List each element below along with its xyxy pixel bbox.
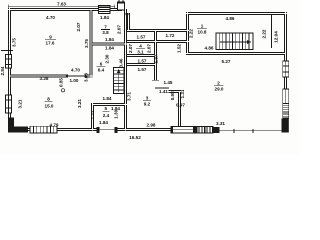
- svg-text:1.84: 1.84: [103, 96, 112, 101]
- svg-text:3: 3: [146, 96, 149, 101]
- svg-text:2.22: 2.22: [262, 29, 267, 38]
- svg-text:3.08: 3.08: [84, 73, 89, 82]
- svg-text:4.86: 4.86: [205, 45, 214, 50]
- svg-text:7: 7: [104, 24, 107, 29]
- svg-text:4: 4: [139, 44, 142, 49]
- svg-text:1.00: 1.00: [70, 78, 79, 83]
- svg-text:5.27: 5.27: [222, 59, 231, 64]
- svg-text:4.70: 4.70: [71, 67, 80, 72]
- svg-text:9.2: 9.2: [144, 101, 151, 106]
- svg-text:3.21: 3.21: [77, 99, 82, 108]
- svg-text:1.57: 1.57: [138, 67, 147, 72]
- svg-text:8: 8: [47, 97, 50, 102]
- svg-text:0.85: 0.85: [59, 78, 64, 87]
- svg-text:1.22: 1.22: [90, 110, 95, 119]
- svg-text:2.07: 2.07: [128, 44, 133, 53]
- svg-text:6: 6: [100, 62, 103, 67]
- svg-text:16.52: 16.52: [129, 135, 141, 140]
- svg-text:1.84: 1.84: [105, 46, 114, 51]
- svg-text:3.8: 3.8: [102, 30, 109, 35]
- svg-text:1.41: 1.41: [159, 89, 168, 94]
- svg-text:3.31: 3.31: [216, 121, 225, 126]
- svg-text:1.30: 1.30: [114, 109, 119, 118]
- svg-text:1.84: 1.84: [99, 120, 108, 125]
- svg-text:10.8: 10.8: [198, 29, 207, 34]
- svg-text:7.63: 7.63: [57, 1, 66, 6]
- svg-text:0.98: 0.98: [170, 91, 175, 100]
- svg-text:1.84: 1.84: [105, 37, 114, 42]
- svg-text:6.4: 6.4: [98, 67, 105, 72]
- svg-text:2.30: 2.30: [105, 54, 110, 63]
- svg-text:3.1: 3.1: [137, 49, 144, 54]
- svg-text:5: 5: [105, 106, 108, 111]
- svg-text:2: 2: [217, 81, 220, 86]
- svg-text:1.31: 1.31: [180, 89, 185, 98]
- svg-text:2.84: 2.84: [0, 66, 5, 75]
- svg-text:2.4: 2.4: [103, 113, 110, 118]
- svg-text:1.52: 1.52: [177, 44, 182, 53]
- svg-text:3.75: 3.75: [84, 39, 89, 48]
- svg-text:2.07: 2.07: [117, 25, 122, 34]
- svg-text:12.04: 12.04: [274, 31, 279, 43]
- svg-text:3.71: 3.71: [127, 92, 132, 101]
- svg-text:0.97: 0.97: [176, 103, 185, 108]
- svg-text:1.57: 1.57: [137, 34, 146, 39]
- svg-text:4.86: 4.86: [226, 16, 235, 21]
- svg-text:9: 9: [49, 35, 52, 40]
- svg-text:29.0: 29.0: [215, 87, 224, 92]
- svg-text:4.70: 4.70: [46, 15, 55, 20]
- svg-text:1.84: 1.84: [100, 15, 109, 20]
- svg-text:1.57: 1.57: [138, 58, 147, 63]
- svg-text:2.07: 2.07: [76, 22, 81, 31]
- svg-text:15.0: 15.0: [45, 103, 54, 108]
- svg-text:1: 1: [201, 23, 204, 28]
- svg-text:2.07: 2.07: [147, 44, 152, 53]
- svg-text:3.46: 3.46: [119, 58, 124, 67]
- svg-text:3.21: 3.21: [18, 99, 23, 108]
- svg-text:1.72: 1.72: [166, 33, 175, 38]
- svg-text:3.28: 3.28: [40, 76, 49, 81]
- svg-text:4.79: 4.79: [50, 122, 59, 127]
- svg-text:17.6: 17.6: [46, 41, 55, 46]
- svg-text:2.22: 2.22: [189, 29, 194, 38]
- svg-text:2.98: 2.98: [147, 123, 156, 128]
- svg-text:1.37: 1.37: [153, 54, 158, 63]
- svg-text:1.45: 1.45: [164, 80, 173, 85]
- svg-text:3.75: 3.75: [12, 38, 17, 47]
